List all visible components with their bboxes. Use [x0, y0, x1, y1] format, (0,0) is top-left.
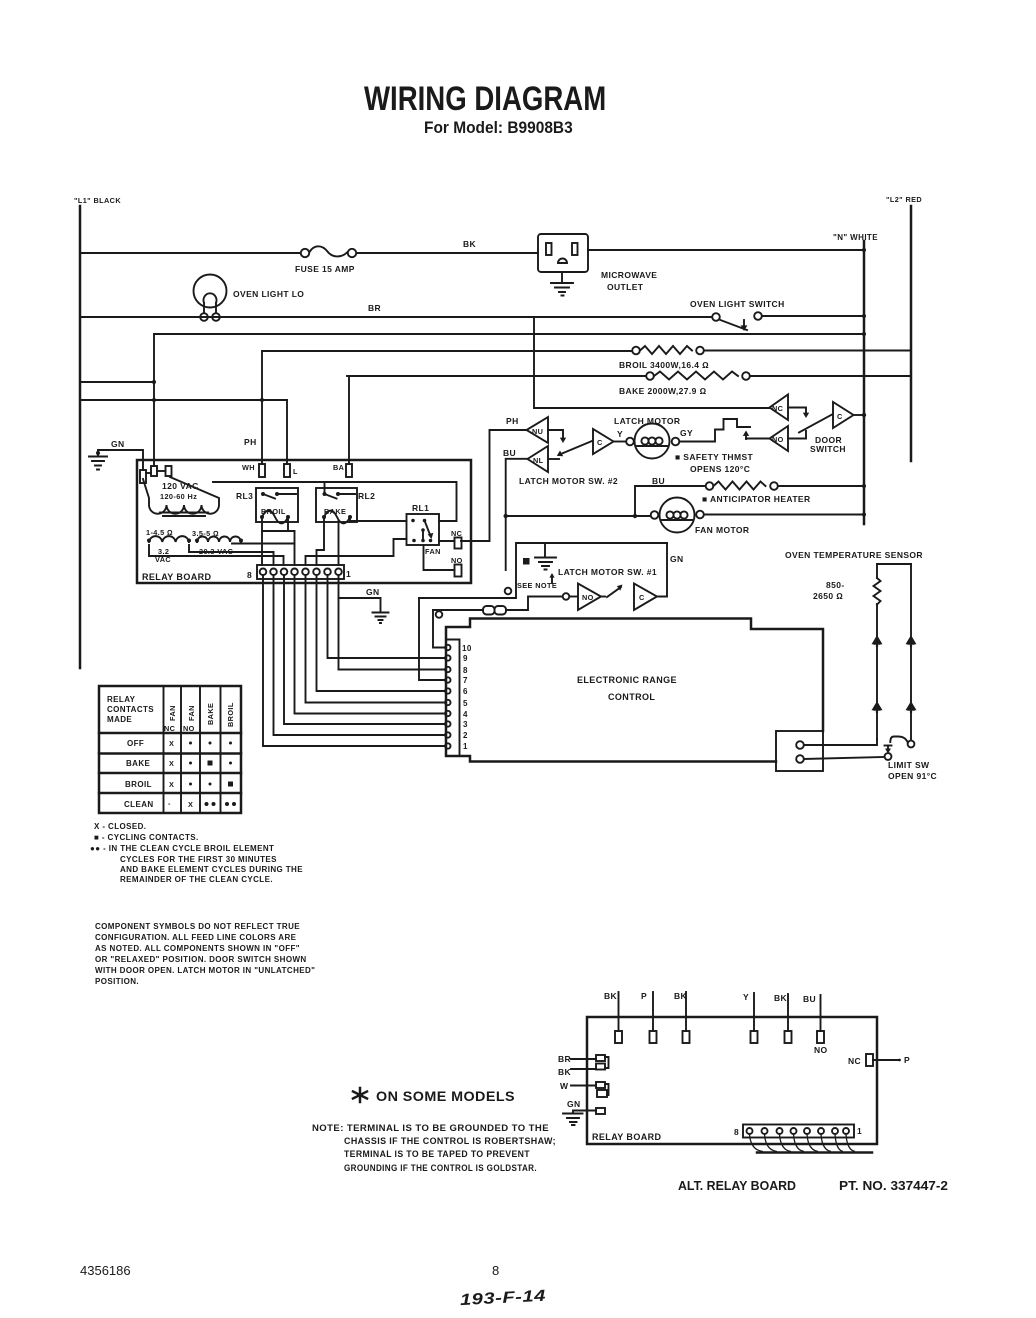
svg-text:OUTLET: OUTLET [607, 282, 644, 292]
svg-text:BU: BU [503, 448, 516, 458]
svg-text:LATCH MOTOR SW. #1: LATCH MOTOR SW. #1 [558, 567, 657, 577]
alt board top terminal BK 3 [774, 993, 792, 1043]
svg-text:PH: PH [506, 416, 519, 426]
svg-text:8: 8 [463, 666, 468, 675]
wire strip pin3 to ERC terminal 3 [284, 575, 445, 724]
svg-text:FAN: FAN [187, 705, 196, 721]
latch motor switch 1 common C [634, 543, 667, 610]
svg-text:FAN: FAN [425, 547, 441, 556]
relay RL3 broil [236, 488, 298, 523]
svg-text:BAKE: BAKE [206, 703, 215, 725]
svg-text:850-: 850- [826, 580, 845, 590]
wire fan motor to N [704, 514, 864, 516]
svg-text:NOTE: TERMINAL IS TO BE GROUND: NOTE: TERMINAL IS TO BE GROUNDED TO THE [312, 1123, 549, 1133]
svg-text:BROIL: BROIL [226, 702, 235, 727]
svg-text:OFF: OFF [127, 739, 144, 748]
svg-text:POSITION.: POSITION. [95, 977, 139, 986]
oven light switch S1 [712, 312, 762, 331]
wire RL2 coil right to RL1 [350, 517, 407, 521]
relay RL2 bake [316, 488, 375, 523]
see note label with arrow [517, 573, 557, 590]
wire strip pin4 to ERC terminal 4 [295, 575, 446, 714]
svg-text:GN: GN [111, 439, 125, 449]
svg-text:8: 8 [734, 1127, 739, 1137]
ERC terminal 8 [445, 667, 450, 672]
svg-text:9: 9 [463, 654, 468, 663]
relay board terminal strip [257, 565, 344, 579]
wire BR drop to door switch NC [534, 317, 769, 408]
svg-text:BU: BU [652, 476, 665, 486]
connector circle on BU net [505, 588, 512, 595]
ERC terminal 7 [445, 677, 450, 682]
svg-text:TERMINAL IS TO BE TAPED TO PRE: TERMINAL IS TO BE TAPED TO PREVENT [344, 1149, 530, 1159]
relay RL1 fan [407, 503, 441, 556]
svg-text:BR: BR [368, 303, 381, 313]
wire RL1 left lower to strip line [307, 539, 407, 556]
relay board outline [137, 460, 471, 583]
svg-text:ALT. RELAY BOARD: ALT. RELAY BOARD [678, 1179, 796, 1193]
svg-text:X: X [169, 780, 174, 789]
wire strip pin5 to ERC terminal 5 [306, 575, 446, 703]
svg-text:BAKE 2000W,27.9 Ω: BAKE 2000W,27.9 Ω [619, 386, 707, 396]
electronic range control outline [446, 619, 823, 762]
svg-text:W: W [560, 1081, 569, 1091]
svg-text:●● - IN THE CLEAN CYCLE BROIL: ●● - IN THE CLEAN CYCLE BROIL ELEMENT [90, 844, 274, 853]
svg-text:FAN MOTOR: FAN MOTOR [695, 525, 749, 535]
door switch common C [833, 402, 854, 428]
svg-text:REMAINDER OF THE CLEAN CYCLE.: REMAINDER OF THE CLEAN CYCLE. [120, 875, 273, 884]
wire strip pin1 to ERC terminal 1 [263, 575, 445, 746]
wire drop x349 bake line to BA terminal [348, 376, 350, 464]
alt relay board outline [587, 1017, 877, 1144]
svg-text:8: 8 [247, 570, 252, 580]
svg-text:7: 7 [463, 676, 468, 685]
svg-text:2650 Ω: 2650 Ω [813, 591, 843, 601]
svg-text:NO: NO [814, 1045, 828, 1055]
wire B: ERC terminal 10 to thermal fuse to NO contact [433, 610, 445, 648]
svg-text:NU: NU [532, 427, 543, 436]
svg-text:"L1" BLACK: "L1" BLACK [74, 196, 121, 205]
alt board top terminal BK 1 [604, 991, 622, 1043]
transformer T1 primary 120 VAC [143, 477, 219, 516]
wire connector to limit switch [804, 757, 885, 759]
resistor bake element 2000W 27.9 ohm [646, 372, 750, 380]
alt strip harness wires [750, 1134, 873, 1153]
see note marker [523, 558, 530, 565]
svg-text:P: P [904, 1055, 910, 1065]
door switch blade [799, 415, 832, 433]
svg-text:CHASSIS IF THE CONTROL IS ROBE: CHASSIS IF THE CONTROL IS ROBERTSHAW; [344, 1136, 556, 1146]
svg-text:LATCH MOTOR SW. #2: LATCH MOTOR SW. #2 [519, 476, 618, 486]
svg-text:PT. NO. 337447-2: PT. NO. 337447-2 [839, 1179, 948, 1193]
wire secondary taps to strip pins [274, 544, 306, 566]
svg-text:FUSE 15 AMP: FUSE 15 AMP [295, 264, 355, 274]
wire strip pin2 to ERC terminal 2 [274, 575, 446, 735]
svg-text:L: L [293, 467, 298, 476]
component symbols note paragraph [95, 922, 315, 986]
svg-text:BK: BK [604, 991, 618, 1001]
svg-text:X: X [169, 739, 174, 748]
svg-text:NC: NC [848, 1056, 861, 1066]
ground at latch switch line [535, 543, 556, 570]
note terminal grounding text [312, 1123, 556, 1173]
door switch NC contact [770, 395, 810, 421]
svg-text:NO: NO [772, 435, 784, 444]
wire L1 tap to relay board feed [80, 381, 154, 383]
svg-text:10: 10 [462, 644, 472, 653]
svg-text:CONTROL: CONTROL [608, 692, 655, 702]
wire drop x262 broil line to WH terminal [261, 351, 263, 464]
wire bake element to L2 [750, 375, 911, 377]
svg-text:120-60 Hz: 120-60 Hz [160, 492, 197, 501]
svg-text:OPENS 120°C: OPENS 120°C [690, 464, 750, 474]
svg-text:C: C [837, 412, 843, 421]
wire C to latch motor, Y [614, 441, 627, 443]
ERC terminal 10 [445, 645, 450, 650]
alt board NC terminal with wire to P [848, 1054, 910, 1066]
svg-text:RELAY BOARD: RELAY BOARD [142, 572, 212, 582]
svg-text:SWITCH: SWITCH [810, 444, 846, 454]
wire strip pin6 to ERC terminal 6 [317, 575, 446, 691]
ERC terminal 9 [445, 655, 450, 660]
svg-text:1: 1 [463, 742, 468, 751]
latch motor switch 1 contact NO [570, 584, 602, 611]
safety thermostat opens 120C [680, 419, 751, 442]
wire L1 BR line to oven light switch [80, 316, 712, 318]
relay RL3 terminal L [284, 464, 298, 477]
svg-text:2: 2 [463, 731, 468, 740]
wire anticipator heater branch, BU [635, 486, 706, 516]
svg-text:GN: GN [670, 554, 684, 564]
svg-text:ELECTRONIC RANGE: ELECTRONIC RANGE [577, 675, 677, 685]
junction outlet-N [862, 248, 866, 252]
oven light LO lamp [194, 275, 227, 321]
wire secondary 2 to terminal strip [189, 545, 274, 552]
wire drop x287 to L terminal [286, 400, 288, 464]
latch motor switch 2 lower contact NL [528, 441, 593, 472]
svg-text:RL1: RL1 [412, 503, 429, 513]
svg-text:RELAY: RELAY [107, 695, 136, 704]
alt board terminal strip [743, 1125, 854, 1138]
svg-text:5: 5 [463, 699, 468, 708]
svg-text:BK: BK [558, 1067, 572, 1077]
svg-text:"L2" RED: "L2" RED [886, 195, 922, 204]
relay board NC terminal [451, 529, 463, 549]
wire door switch to N [854, 414, 865, 416]
svg-text:RL2: RL2 [358, 491, 375, 501]
junction dots on L1 taps [152, 380, 156, 384]
column header FAN NC [164, 705, 177, 733]
svg-text:PH: PH [244, 437, 257, 447]
ERC terminal 5 [445, 700, 450, 705]
ERC terminal 2 [445, 732, 450, 737]
door switch NO contact [746, 426, 806, 451]
svg-text:NC: NC [772, 404, 784, 413]
svg-text:NO: NO [582, 593, 594, 602]
svg-text:RELAY BOARD: RELAY BOARD [592, 1132, 662, 1142]
svg-text:ON SOME MODELS: ON SOME MODELS [376, 1089, 515, 1104]
wire fuse to microwave outlet, BK [357, 252, 539, 254]
svg-text:GY: GY [680, 428, 693, 438]
ground GN chassis left [89, 439, 143, 470]
svg-text:LATCH MOTOR: LATCH MOTOR [614, 416, 680, 426]
wire outlet to N [588, 249, 864, 251]
svg-text:COMPONENT SYMBOLS DO NOT REFLE: COMPONENT SYMBOLS DO NOT REFLECT TRUE [95, 922, 300, 931]
svg-text:MICROWAVE: MICROWAVE [601, 270, 657, 280]
transformer T1 input terminals [140, 466, 172, 483]
svg-text:CLEAN: CLEAN [124, 800, 154, 809]
svg-text:CONTACTS: CONTACTS [107, 705, 154, 714]
wire RL2 coil right to strip pin 8 [338, 521, 340, 565]
svg-text:C: C [639, 593, 645, 602]
svg-text:8: 8 [492, 1263, 499, 1278]
ERC sensor connector box [776, 731, 823, 771]
limit switch SW open 91C [885, 737, 915, 760]
column header FAN NO [183, 705, 196, 733]
svg-text:OVEN LIGHT LO: OVEN LIGHT LO [233, 289, 304, 299]
connector circle on wire B [563, 593, 570, 600]
wire RL2 to RL1 upper [213, 482, 457, 521]
latch motor M1 [626, 424, 679, 459]
wire bus line to N [154, 333, 864, 335]
alt board GN ground terminal [563, 1099, 605, 1125]
svg-text:■ - CYCLING CONTACTS.: ■ - CYCLING CONTACTS. [94, 833, 199, 842]
wire L1 rail [79, 206, 82, 668]
wire fan branch bus [506, 515, 651, 517]
latch motor switch 2 common C [593, 429, 614, 454]
transformer secondary 20.3 VAC winding [192, 529, 243, 556]
ERC terminal 1 [445, 743, 450, 748]
svg-text:C: C [597, 438, 603, 447]
junction bus-N [862, 332, 866, 336]
fuse F1 15 AMP [301, 246, 356, 257]
ground at microwave outlet [551, 272, 573, 296]
svg-text:CYCLES FOR THE FIRST 30 MINUTE: CYCLES FOR THE FIRST 30 MINUTES [120, 855, 277, 864]
svg-text:■ SAFETY THMST: ■ SAFETY THMST [675, 452, 754, 462]
svg-text:BAKE: BAKE [126, 759, 151, 768]
wire secondary to terminal strip [149, 545, 284, 556]
wire broil element to L2 [704, 350, 911, 352]
svg-text:-: - [168, 799, 171, 808]
alt board top terminal BK 2 [674, 991, 690, 1043]
row CLEAN [124, 799, 236, 809]
wire RL1 to NC terminal [439, 540, 455, 542]
svg-text:AS NOTED. ALL COMPONENTS SHOWN: AS NOTED. ALL COMPONENTS SHOWN IN "OFF" [95, 944, 300, 953]
wire L2 rail [910, 206, 913, 461]
relay RL3 terminal WH [242, 437, 265, 477]
row OFF [127, 739, 232, 748]
svg-text:BK: BK [774, 993, 788, 1003]
svg-text:GROUNDING IF THE CONTROL IS GO: GROUNDING IF THE CONTROL IS GOLDSTAR. [344, 1163, 537, 1173]
relay RL2 terminal BA [333, 463, 352, 477]
wire A common: NC net to ERC terminal 7 [419, 598, 445, 680]
wire strip pin8 to ERC terminal 8 with GN tap [339, 575, 446, 670]
svg-text:X - CLOSED.: X - CLOSED. [94, 822, 146, 831]
wire A horizontal run [419, 543, 667, 598]
wire NC relay terminal to NU switch contact, PH [461, 430, 526, 541]
svg-text:1: 1 [346, 569, 351, 579]
svg-text:CONFIGURATION. ALL FEED LINE C: CONFIGURATION. ALL FEED LINE COLORS ARE [95, 933, 297, 942]
svg-text:BROIL: BROIL [125, 780, 152, 789]
svg-text:3: 3 [463, 720, 468, 729]
svg-text:MADE: MADE [107, 715, 132, 724]
svg-text:FAN: FAN [168, 705, 177, 721]
svg-text:LIMIT SW: LIMIT SW [888, 760, 930, 770]
svg-text:Y: Y [743, 992, 749, 1002]
svg-text:6: 6 [463, 687, 468, 696]
svg-text:P: P [641, 991, 647, 1001]
wire N rail [863, 241, 866, 524]
svg-text:X: X [188, 800, 193, 809]
alt board left terminal W [560, 1081, 609, 1097]
svg-text:OVEN LIGHT SWITCH: OVEN LIGHT SWITCH [690, 299, 785, 309]
ERC terminal strip wall [446, 640, 460, 757]
svg-text:OVEN TEMPERATURE SENSOR: OVEN TEMPERATURE SENSOR [785, 550, 923, 560]
svg-text:BROIL 3400W,16.4 Ω: BROIL 3400W,16.4 Ω [619, 360, 709, 370]
wire GN tap to chassis ground [339, 598, 381, 612]
alt board top terminal P [641, 991, 657, 1043]
alt board top terminal BU [803, 994, 824, 1043]
wire drop x154 to relay board 120VAC terminal [153, 334, 155, 466]
resistor anticipator heater [706, 482, 778, 490]
microwave outlet J1 [538, 234, 588, 272]
row BAKE [126, 759, 232, 768]
wire anticipator to N [778, 485, 864, 487]
wire internal jog [232, 531, 295, 544]
alt board top terminal Y [743, 992, 758, 1043]
alt board left terminal BK [558, 1067, 596, 1077]
svg-text:BR: BR [558, 1054, 571, 1064]
wire L1 lower tap [80, 399, 287, 401]
svg-text:"N" WHITE: "N" WHITE [833, 233, 878, 242]
svg-text:OR "RELAXED" POSITION. DOOR SW: OR "RELAXED" POSITION. DOOR SWITCH SHOWN [95, 955, 307, 964]
svg-text:4356186: 4356186 [80, 1263, 131, 1278]
ground chassis center [373, 613, 389, 624]
svg-text:BA: BA [333, 463, 345, 472]
svg-text:NL: NL [533, 456, 544, 465]
svg-text:For Model: B9908B3: For Model: B9908B3 [424, 118, 573, 137]
svg-text:AND BAKE ELEMENT CYCLES DURING: AND BAKE ELEMENT CYCLES DURING THE [120, 865, 303, 874]
resistor broil element 3400W 16.4 ohm [632, 346, 704, 354]
svg-text:GN: GN [567, 1099, 581, 1109]
ERC terminal 6 [445, 688, 450, 693]
connector arrows on sensor leads [873, 637, 915, 713]
thermal fuse on wire B [433, 597, 562, 615]
svg-text:OPEN 91°C: OPEN 91°C [888, 771, 937, 781]
relay board NO terminal [451, 556, 463, 577]
wire NO relay terminal to NL contact, BU [506, 459, 527, 570]
svg-text:X: X [169, 759, 174, 768]
junction switch-N [862, 314, 866, 318]
ERC terminal 3 [445, 721, 450, 726]
row BROIL [125, 780, 233, 789]
svg-text:4: 4 [463, 710, 468, 719]
wire RL1 bottom to NO terminal [424, 545, 455, 570]
svg-text:WH: WH [242, 463, 255, 472]
alt board left terminal BR [558, 1054, 609, 1070]
svg-text:BU: BU [803, 994, 816, 1004]
svg-text:WITH DOOR OPEN. LATCH MOTOR IN: WITH DOOR OPEN. LATCH MOTOR IN "UNLATCHE… [95, 966, 315, 975]
wire broil element line left [262, 350, 632, 352]
wire strip pin7 to ERC terminal 9 [328, 575, 446, 658]
wire RL3 coil to strip [261, 517, 263, 565]
svg-text:NO: NO [183, 724, 195, 733]
ERC terminal 4 [445, 711, 450, 716]
connector circle on wire B corner [436, 611, 443, 618]
wire bake element line left [347, 375, 646, 377]
wire switch to N [762, 315, 864, 317]
svg-text:■ ANTICIPATOR HEATER: ■ ANTICIPATOR HEATER [702, 494, 811, 504]
relay contacts table frame [99, 686, 241, 813]
table legend notes [90, 822, 303, 884]
wire RL3 coil right jog [262, 517, 295, 531]
wire RL2 coil to strip [317, 517, 325, 565]
wire L1 to fuse [80, 252, 301, 254]
svg-text:NC: NC [164, 724, 176, 733]
svg-text:GN: GN [366, 587, 380, 597]
latch switch 1 blade with arrow [601, 585, 623, 598]
fan motor M2 [651, 498, 704, 533]
svg-text:Y: Y [617, 429, 623, 439]
svg-text:BK: BK [463, 239, 477, 249]
latch motor switch 2 upper contact NU [527, 417, 567, 443]
on some models star marker [353, 1088, 367, 1102]
oven temperature sensor RT1 [874, 564, 912, 741]
svg-text:1: 1 [857, 1126, 862, 1136]
transformer secondary 3.2 VAC winding [146, 528, 191, 564]
svg-text:WIRING DIAGRAM: WIRING DIAGRAM [364, 79, 606, 118]
svg-text:RL3: RL3 [236, 491, 253, 501]
wire connector to sensor left lead [804, 739, 877, 745]
